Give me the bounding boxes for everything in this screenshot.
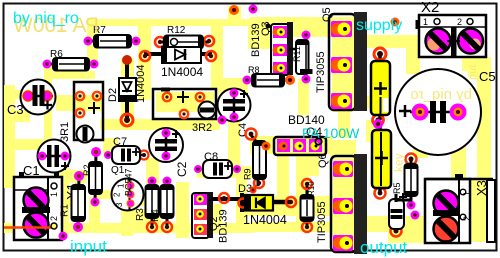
svg-text:by niq_ro: by niq_ro xyxy=(13,10,79,27)
capacitor CF2 yellow block bottom xyxy=(372,119,391,199)
svg-text:R8: R8 xyxy=(248,65,260,75)
wire X2 to C5 xyxy=(468,55,488,77)
wire C7 blob xyxy=(103,138,118,155)
transistor Q4 BD140 xyxy=(274,137,326,155)
svg-text:C7: C7 xyxy=(113,136,127,148)
via pad under Q6 band xyxy=(411,211,420,220)
via pad bottom rail left xyxy=(59,232,68,241)
svg-text:2: 2 xyxy=(113,192,122,197)
svg-text:C1: C1 xyxy=(23,163,40,178)
wire V5 behind D2 xyxy=(121,58,134,130)
resistor R2 xyxy=(89,147,102,207)
svg-text:by niq_ro: by niq_ro xyxy=(410,86,472,103)
wire Q1 right stub xyxy=(133,198,160,206)
capacitor C2 xyxy=(149,128,183,162)
svg-text:C5: C5 xyxy=(479,69,496,84)
svg-text:BC547: BC547 xyxy=(124,168,134,196)
wire bottom rail A xyxy=(4,223,253,233)
connector X1 xyxy=(4,172,62,240)
wire R3 bottom band xyxy=(121,209,161,223)
wire Q6 label column xyxy=(309,150,319,176)
capacitor CF1 yellow block top xyxy=(371,48,390,126)
wire C4 down xyxy=(228,112,240,172)
svg-text:1: 1 xyxy=(423,17,428,27)
transistor Q6 TIP3055 xyxy=(331,154,367,254)
svg-text:key: key xyxy=(392,153,406,172)
wire V21 under Q1 xyxy=(121,198,133,236)
trimmer 3R1 xyxy=(74,82,103,143)
wire V1 down to R6 xyxy=(87,19,98,66)
svg-text:R11: R11 xyxy=(292,46,302,62)
wire V26 Q4 left down xyxy=(277,150,289,202)
svg-text:supply: supply xyxy=(356,17,402,34)
capacitor C8 xyxy=(194,160,241,178)
svg-text:TIP3055: TIP3055 xyxy=(316,201,328,243)
wire H6 mid horizontal xyxy=(100,119,220,130)
via pad right of 3R2 xyxy=(218,116,227,125)
svg-text:R10: R10 xyxy=(307,181,316,196)
resistor R11 xyxy=(296,31,313,84)
diode D1 1N4004 xyxy=(140,47,216,63)
wire V27 down to D3 xyxy=(236,170,247,223)
svg-text:Q3: Q3 xyxy=(260,21,272,36)
wire V17 below C5 xyxy=(413,130,428,158)
wire supply down to C5 xyxy=(406,44,420,74)
capacitor C7 xyxy=(104,146,149,164)
resistor R12 xyxy=(155,36,214,49)
wire V6 below R12 left xyxy=(138,25,151,100)
wire Q1 left stub xyxy=(96,190,113,199)
svg-text:1N4004: 1N4004 xyxy=(135,64,147,103)
capacitor C4 xyxy=(218,89,251,122)
svg-text:2: 2 xyxy=(457,17,462,27)
connector X2 xyxy=(416,15,487,57)
svg-text:2: 2 xyxy=(462,216,472,221)
wire H11 C8 row xyxy=(197,166,256,178)
wire left edge lower xyxy=(4,110,30,122)
trimmer 3R2 xyxy=(153,88,216,120)
svg-text:X2: X2 xyxy=(421,0,439,16)
svg-text:1: 1 xyxy=(462,191,472,196)
svg-text:PA 100W: PA 100W xyxy=(302,125,360,141)
resistor R3 xyxy=(146,177,159,233)
capacitor C6 xyxy=(389,193,412,237)
wire rect2 area vertical xyxy=(366,120,379,142)
transistor Q3 BD139 xyxy=(266,22,310,75)
wire right edge vertical xyxy=(477,57,491,180)
svg-text:1: 1 xyxy=(49,192,59,197)
wire mid bottom band xyxy=(243,196,356,216)
svg-text:R6: R6 xyxy=(50,49,63,60)
svg-text:R5: R5 xyxy=(392,182,402,194)
wire Q6 to X3 band xyxy=(330,216,425,227)
wire Q5 bottom to rect1 xyxy=(352,96,374,108)
resistor R8 xyxy=(243,74,296,87)
svg-text:R9: R9 xyxy=(243,168,253,180)
via pad top stub xyxy=(229,5,239,15)
wire V12 Q5 to Q4 xyxy=(338,90,350,138)
wire Q6 top left blob xyxy=(330,140,356,157)
wire C4 top blob xyxy=(218,78,248,95)
wire R1 top blob xyxy=(67,170,87,183)
wire top stub up xyxy=(228,6,241,22)
svg-text:Q5: Q5 xyxy=(321,7,333,22)
wire X3 entry blob xyxy=(388,227,425,243)
wire X2 right down xyxy=(462,55,483,71)
svg-text:output: output xyxy=(360,238,408,257)
resistor R10 xyxy=(301,179,314,232)
wire V2 via C3 right xyxy=(44,64,52,140)
wire V16 to X3 xyxy=(451,130,466,180)
resistor R4 xyxy=(161,177,174,233)
wire V20 between R4 and Q2 xyxy=(176,182,189,238)
transistor Q5 TIP3055 xyxy=(329,12,367,111)
svg-text:input: input xyxy=(70,237,107,256)
wire top rail xyxy=(88,19,358,26)
wire to C1 left xyxy=(4,139,58,150)
wire left edge vertical xyxy=(4,85,15,188)
wire Q2 label column xyxy=(211,204,222,223)
svg-text:2: 2 xyxy=(49,216,59,221)
svg-text:C8: C8 xyxy=(204,151,218,163)
svg-text:R4: R4 xyxy=(150,209,161,222)
via pad left of Q4 xyxy=(262,142,271,151)
transistor Q2 BD139 xyxy=(192,192,243,238)
svg-text:D2: D2 xyxy=(107,88,119,102)
wire X1 upper stub xyxy=(60,196,80,207)
svg-text:3R2: 3R2 xyxy=(192,122,212,134)
wire V25 Q4 down xyxy=(296,150,309,222)
connector X3 xyxy=(425,174,495,243)
diode D3 1N4004 xyxy=(239,195,297,211)
wire R11 down xyxy=(298,79,309,115)
wire Q3 area blob xyxy=(250,17,356,37)
wire V23 left of C1 xyxy=(57,150,69,235)
wire Q4 blob xyxy=(250,136,332,154)
svg-text:TIP3055: TIP3055 xyxy=(315,51,327,93)
diode D2 xyxy=(119,55,136,126)
wire Q5 pads column xyxy=(332,20,354,112)
svg-text:BD139: BD139 xyxy=(218,209,230,243)
wire 3R2 interior xyxy=(156,92,214,112)
svg-text:1N4004: 1N4004 xyxy=(243,213,287,227)
wire supply trace to X2 xyxy=(352,35,422,48)
svg-text:X3: X3 xyxy=(474,180,489,196)
resistor R5 xyxy=(405,154,418,210)
svg-text:C2: C2 xyxy=(175,161,189,177)
wire 3R1 band xyxy=(56,95,103,111)
svg-text:3: 3 xyxy=(115,202,124,207)
capacitor C3 xyxy=(21,80,56,115)
via pad top left of Q3 xyxy=(249,5,258,14)
transistor Q1 BC547 xyxy=(112,179,144,211)
svg-text:R1: R1 xyxy=(60,204,71,217)
capacitor C5 xyxy=(395,69,481,155)
svg-text:put: put xyxy=(467,65,479,80)
svg-text:R3: R3 xyxy=(135,208,146,221)
svg-text:R12: R12 xyxy=(167,25,186,36)
wire R2 down xyxy=(89,197,100,233)
resistor R9 xyxy=(246,129,267,189)
wire V8 below R12 right xyxy=(211,23,223,90)
wire left edge to C3 xyxy=(4,90,26,99)
wire C2 down to R3 xyxy=(146,158,159,184)
resistor R7 xyxy=(84,35,141,48)
via pad near supply xyxy=(391,18,400,27)
resistor R6 xyxy=(43,58,99,71)
wire C3 top horizontal xyxy=(45,71,95,79)
capacitor C1 xyxy=(38,140,71,173)
wire bottom rail B xyxy=(248,222,423,232)
svg-text:1N4004: 1N4004 xyxy=(161,65,203,79)
resistor R1 xyxy=(72,171,86,232)
wire Q3 left column xyxy=(248,26,271,49)
svg-text:3R1: 3R1 xyxy=(59,122,71,142)
wire Q6 pads column xyxy=(333,158,355,250)
svg-text:C3: C3 xyxy=(7,102,24,117)
